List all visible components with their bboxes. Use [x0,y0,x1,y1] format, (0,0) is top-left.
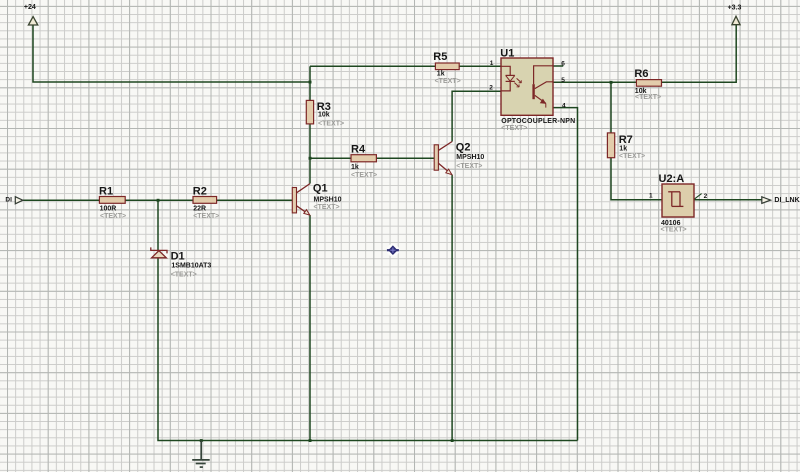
svg-text:U2:A: U2:A [659,173,685,185]
svg-text:<TEXT>: <TEXT> [318,120,344,127]
svg-text:<TEXT>: <TEXT> [314,204,340,211]
svg-text:R4: R4 [351,144,366,156]
svg-text:R2: R2 [193,186,207,198]
svg-text:5: 5 [561,77,565,84]
svg-text:1k: 1k [619,146,627,153]
svg-text:<TEXT>: <TEXT> [100,213,126,220]
svg-text:<TEXT>: <TEXT> [456,163,482,170]
svg-text:6: 6 [561,61,565,68]
svg-text:Q2: Q2 [456,142,471,154]
svg-text:<TEXT>: <TEXT> [619,153,645,160]
svg-text:<TEXT>: <TEXT> [193,213,219,220]
svg-text:<TEXT>: <TEXT> [351,172,377,179]
svg-text:22R: 22R [193,205,206,212]
svg-text:100R: 100R [100,205,117,212]
svg-text:2: 2 [489,85,493,92]
svg-text:+3.3: +3.3 [728,4,742,11]
svg-text:<TEXT>: <TEXT> [635,94,661,101]
svg-text:U1: U1 [500,48,514,60]
svg-text:2: 2 [704,193,708,200]
svg-text:10k: 10k [318,112,330,119]
svg-text:<TEXT>: <TEXT> [501,125,527,132]
svg-text:<TEXT>: <TEXT> [171,272,197,279]
svg-text:Q1: Q1 [313,183,328,195]
svg-text:R7: R7 [619,134,633,146]
svg-text:R6: R6 [634,68,648,80]
svg-text:1: 1 [490,60,494,67]
svg-text:1SMB10AT3: 1SMB10AT3 [171,263,211,270]
svg-text:R5: R5 [433,51,447,63]
svg-text:+24: +24 [24,4,36,11]
svg-text:D1: D1 [171,250,185,262]
svg-text:DI_LNK: DI_LNK [774,197,799,204]
svg-text:DI: DI [5,197,12,204]
svg-text:1: 1 [649,193,653,200]
svg-text:1k: 1k [437,70,445,77]
svg-text:4: 4 [562,102,566,109]
svg-text:MPSH10: MPSH10 [456,154,484,161]
svg-text:OPTOCOUPLER-NPN: OPTOCOUPLER-NPN [501,118,575,125]
svg-text:R1: R1 [99,185,113,197]
svg-text:<TEXT>: <TEXT> [661,226,687,233]
svg-text:<TEXT>: <TEXT> [435,78,461,85]
svg-text:MPSH10: MPSH10 [314,197,342,204]
svg-text:1k: 1k [351,164,359,171]
